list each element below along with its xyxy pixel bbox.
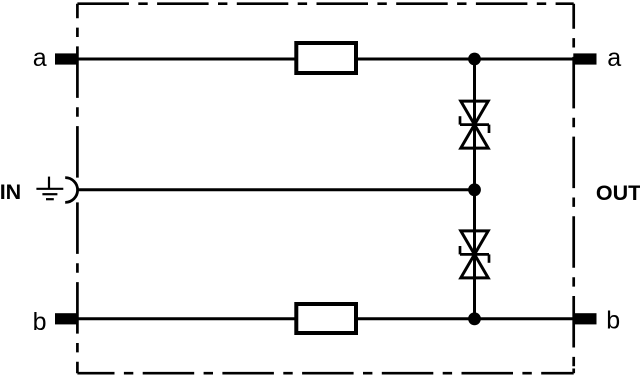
ground symbol (earth, at IN): [36, 177, 63, 200]
terminal b (right): [573, 313, 596, 324]
wire: IN middle line: [78, 188, 475, 191]
resistor R2 (bottom decoupling element): [296, 304, 356, 333]
wire: vertical bus: [473, 59, 476, 319]
wire: line a (top): [78, 58, 574, 61]
enclosure dash-dot border: left edge lower segment: [76, 202, 79, 373]
svg-text:b: b: [33, 308, 47, 336]
resistor R1 (top decoupling element): [296, 43, 356, 73]
suppressor diode V2 (bidirectional, IN to line b): [460, 231, 489, 278]
node: junction dot IN / bus: [468, 183, 481, 196]
wire: line b (bottom): [78, 317, 574, 320]
IN port arc (boundary crossing): [65, 178, 77, 203]
svg-text:a: a: [33, 44, 47, 72]
terminal b (left): [55, 313, 78, 324]
enclosure dash-dot border: right edge: [572, 4, 575, 367]
svg-text:b: b: [606, 306, 620, 334]
node: junction dot line b / bus: [468, 312, 481, 325]
enclosure dash-dot border: top edge: [77, 2, 573, 5]
terminal a (right): [573, 53, 596, 64]
svg-text:a: a: [607, 44, 621, 72]
svg-text:OUT: OUT: [596, 181, 640, 205]
enclosure dash-dot border: right edge corner stub: [572, 369, 575, 374]
enclosure dash-dot border: bottom edge: [77, 372, 573, 375]
suppressor diode V1 (bidirectional, line a to IN): [460, 101, 489, 148]
terminal a (left): [55, 53, 78, 64]
enclosure dash-dot border: left edge upper segment: [76, 4, 79, 178]
svg-text:IN: IN: [0, 180, 21, 204]
node: junction dot line a / bus: [468, 53, 481, 66]
